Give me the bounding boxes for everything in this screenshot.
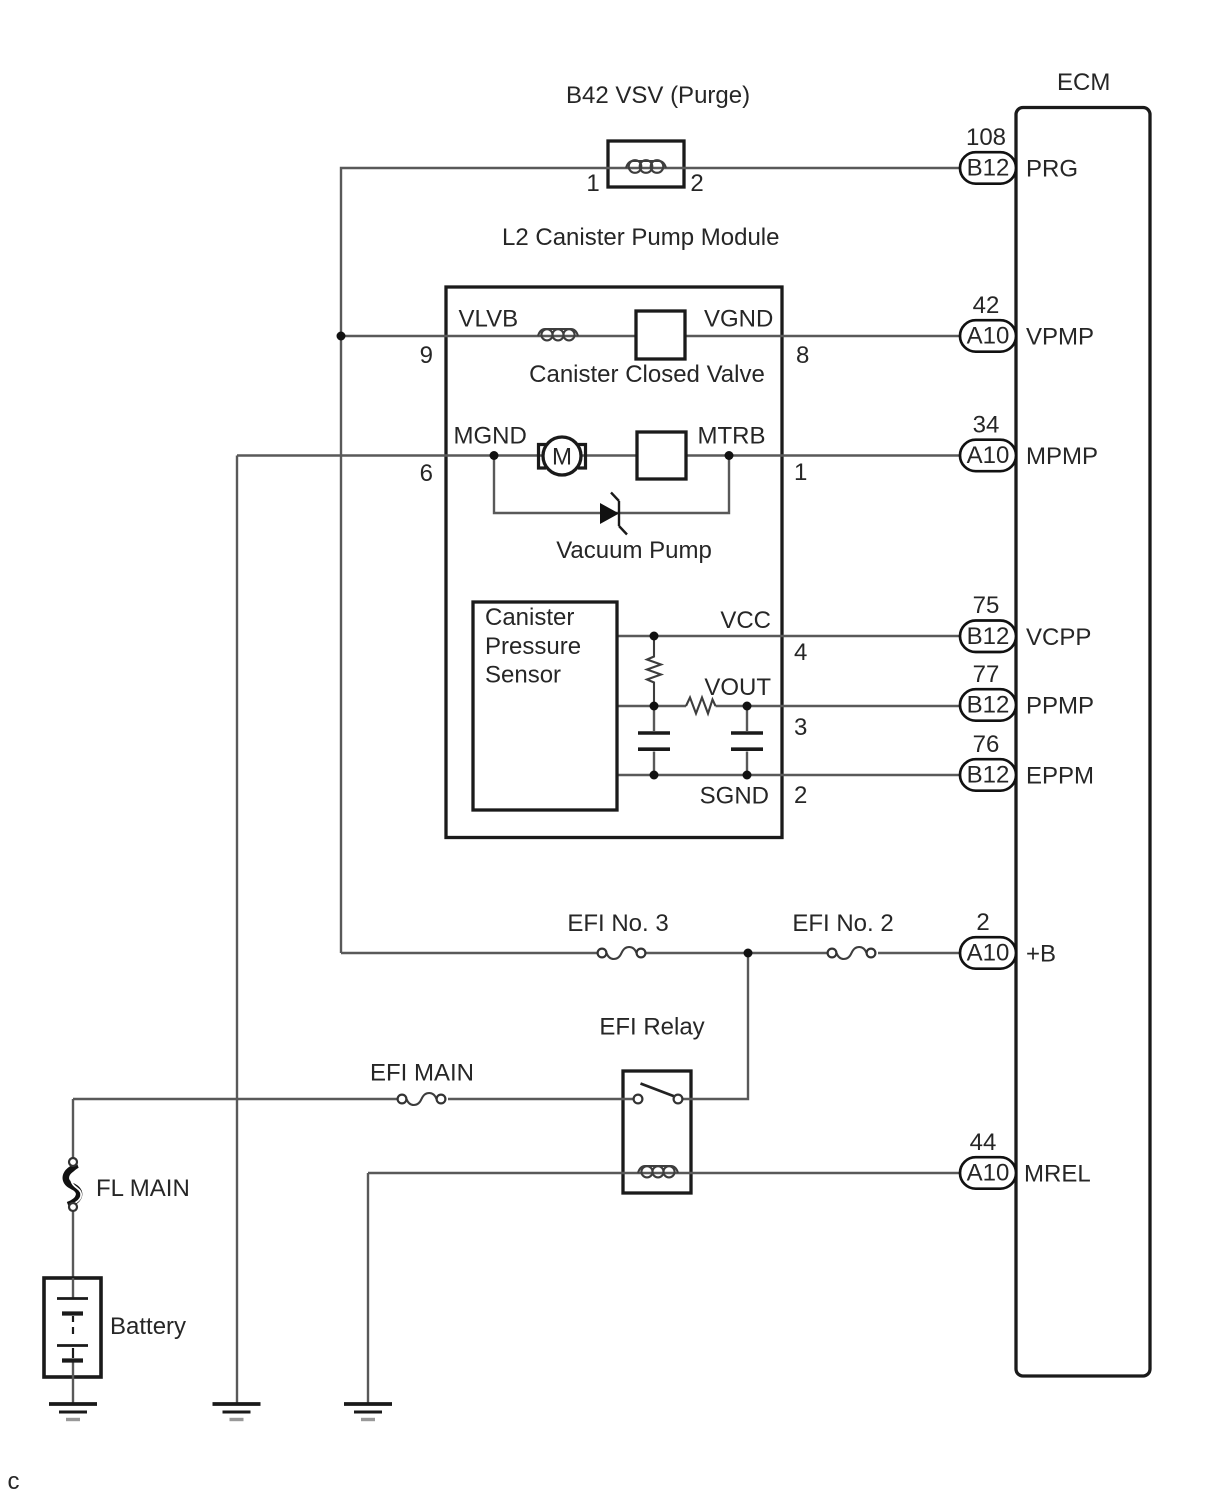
svg-text:MREL: MREL (1024, 1161, 1091, 1188)
svg-text:EFI No. 2: EFI No. 2 (792, 910, 893, 937)
svg-text:PPMP: PPMP (1026, 693, 1094, 720)
svg-text:VCC: VCC (720, 607, 771, 634)
svg-text:EFI Relay: EFI Relay (599, 1014, 704, 1041)
svg-text:VCPP: VCPP (1026, 624, 1091, 651)
svg-text:PRG: PRG (1026, 156, 1078, 183)
svg-text:MTRB: MTRB (698, 423, 766, 450)
svg-text:4: 4 (794, 639, 807, 666)
svg-text:8: 8 (796, 342, 809, 369)
svg-text:M: M (552, 444, 572, 471)
svg-text:B12: B12 (967, 623, 1010, 650)
svg-text:SGND: SGND (700, 783, 769, 810)
svg-text:EFI No. 3: EFI No. 3 (567, 910, 668, 937)
svg-text:EFI MAIN: EFI MAIN (370, 1060, 474, 1087)
svg-text:VLVB: VLVB (459, 306, 519, 333)
svg-text:c: c (8, 1468, 20, 1495)
svg-text:34: 34 (973, 412, 1000, 439)
svg-text:108: 108 (966, 124, 1006, 151)
svg-text:ECM: ECM (1057, 69, 1110, 96)
svg-text:1: 1 (586, 170, 599, 197)
svg-text:75: 75 (973, 592, 1000, 619)
svg-text:2: 2 (976, 909, 989, 936)
svg-text:Vacuum Pump: Vacuum Pump (556, 537, 712, 564)
svg-text:B12: B12 (967, 692, 1010, 719)
svg-text:B12: B12 (967, 762, 1010, 789)
svg-text:FL MAIN: FL MAIN (96, 1175, 190, 1202)
svg-text:MGND: MGND (454, 423, 527, 450)
svg-text:B12: B12 (967, 155, 1010, 182)
svg-text:2: 2 (794, 782, 807, 809)
svg-text:L2 Canister Pump Module: L2 Canister Pump Module (502, 224, 779, 251)
svg-text:Canister: Canister (485, 604, 574, 631)
svg-text:VGND: VGND (704, 306, 773, 333)
svg-text:VPMP: VPMP (1026, 324, 1094, 351)
svg-text:44: 44 (970, 1129, 997, 1156)
svg-text:2: 2 (690, 170, 703, 197)
svg-text:A10: A10 (967, 1160, 1010, 1187)
svg-text:77: 77 (973, 661, 1000, 688)
svg-text:EPPM: EPPM (1026, 763, 1094, 790)
svg-text:Battery: Battery (110, 1313, 186, 1340)
svg-text:Sensor: Sensor (485, 662, 561, 689)
svg-text:6: 6 (420, 460, 433, 487)
svg-text:A10: A10 (967, 323, 1010, 350)
svg-text:Pressure: Pressure (485, 633, 581, 660)
svg-text:3: 3 (794, 714, 807, 741)
svg-text:76: 76 (973, 731, 1000, 758)
svg-text:A10: A10 (967, 940, 1010, 967)
svg-text:9: 9 (420, 342, 433, 369)
svg-text:MPMP: MPMP (1026, 443, 1098, 470)
svg-text:Canister Closed Valve: Canister Closed Valve (529, 361, 765, 388)
svg-text:A10: A10 (967, 442, 1010, 469)
svg-text:B42 VSV (Purge): B42 VSV (Purge) (566, 82, 750, 109)
svg-text:42: 42 (973, 292, 1000, 319)
svg-text:1: 1 (794, 459, 807, 486)
svg-text:VOUT: VOUT (704, 674, 771, 701)
svg-text:+B: +B (1026, 941, 1056, 968)
